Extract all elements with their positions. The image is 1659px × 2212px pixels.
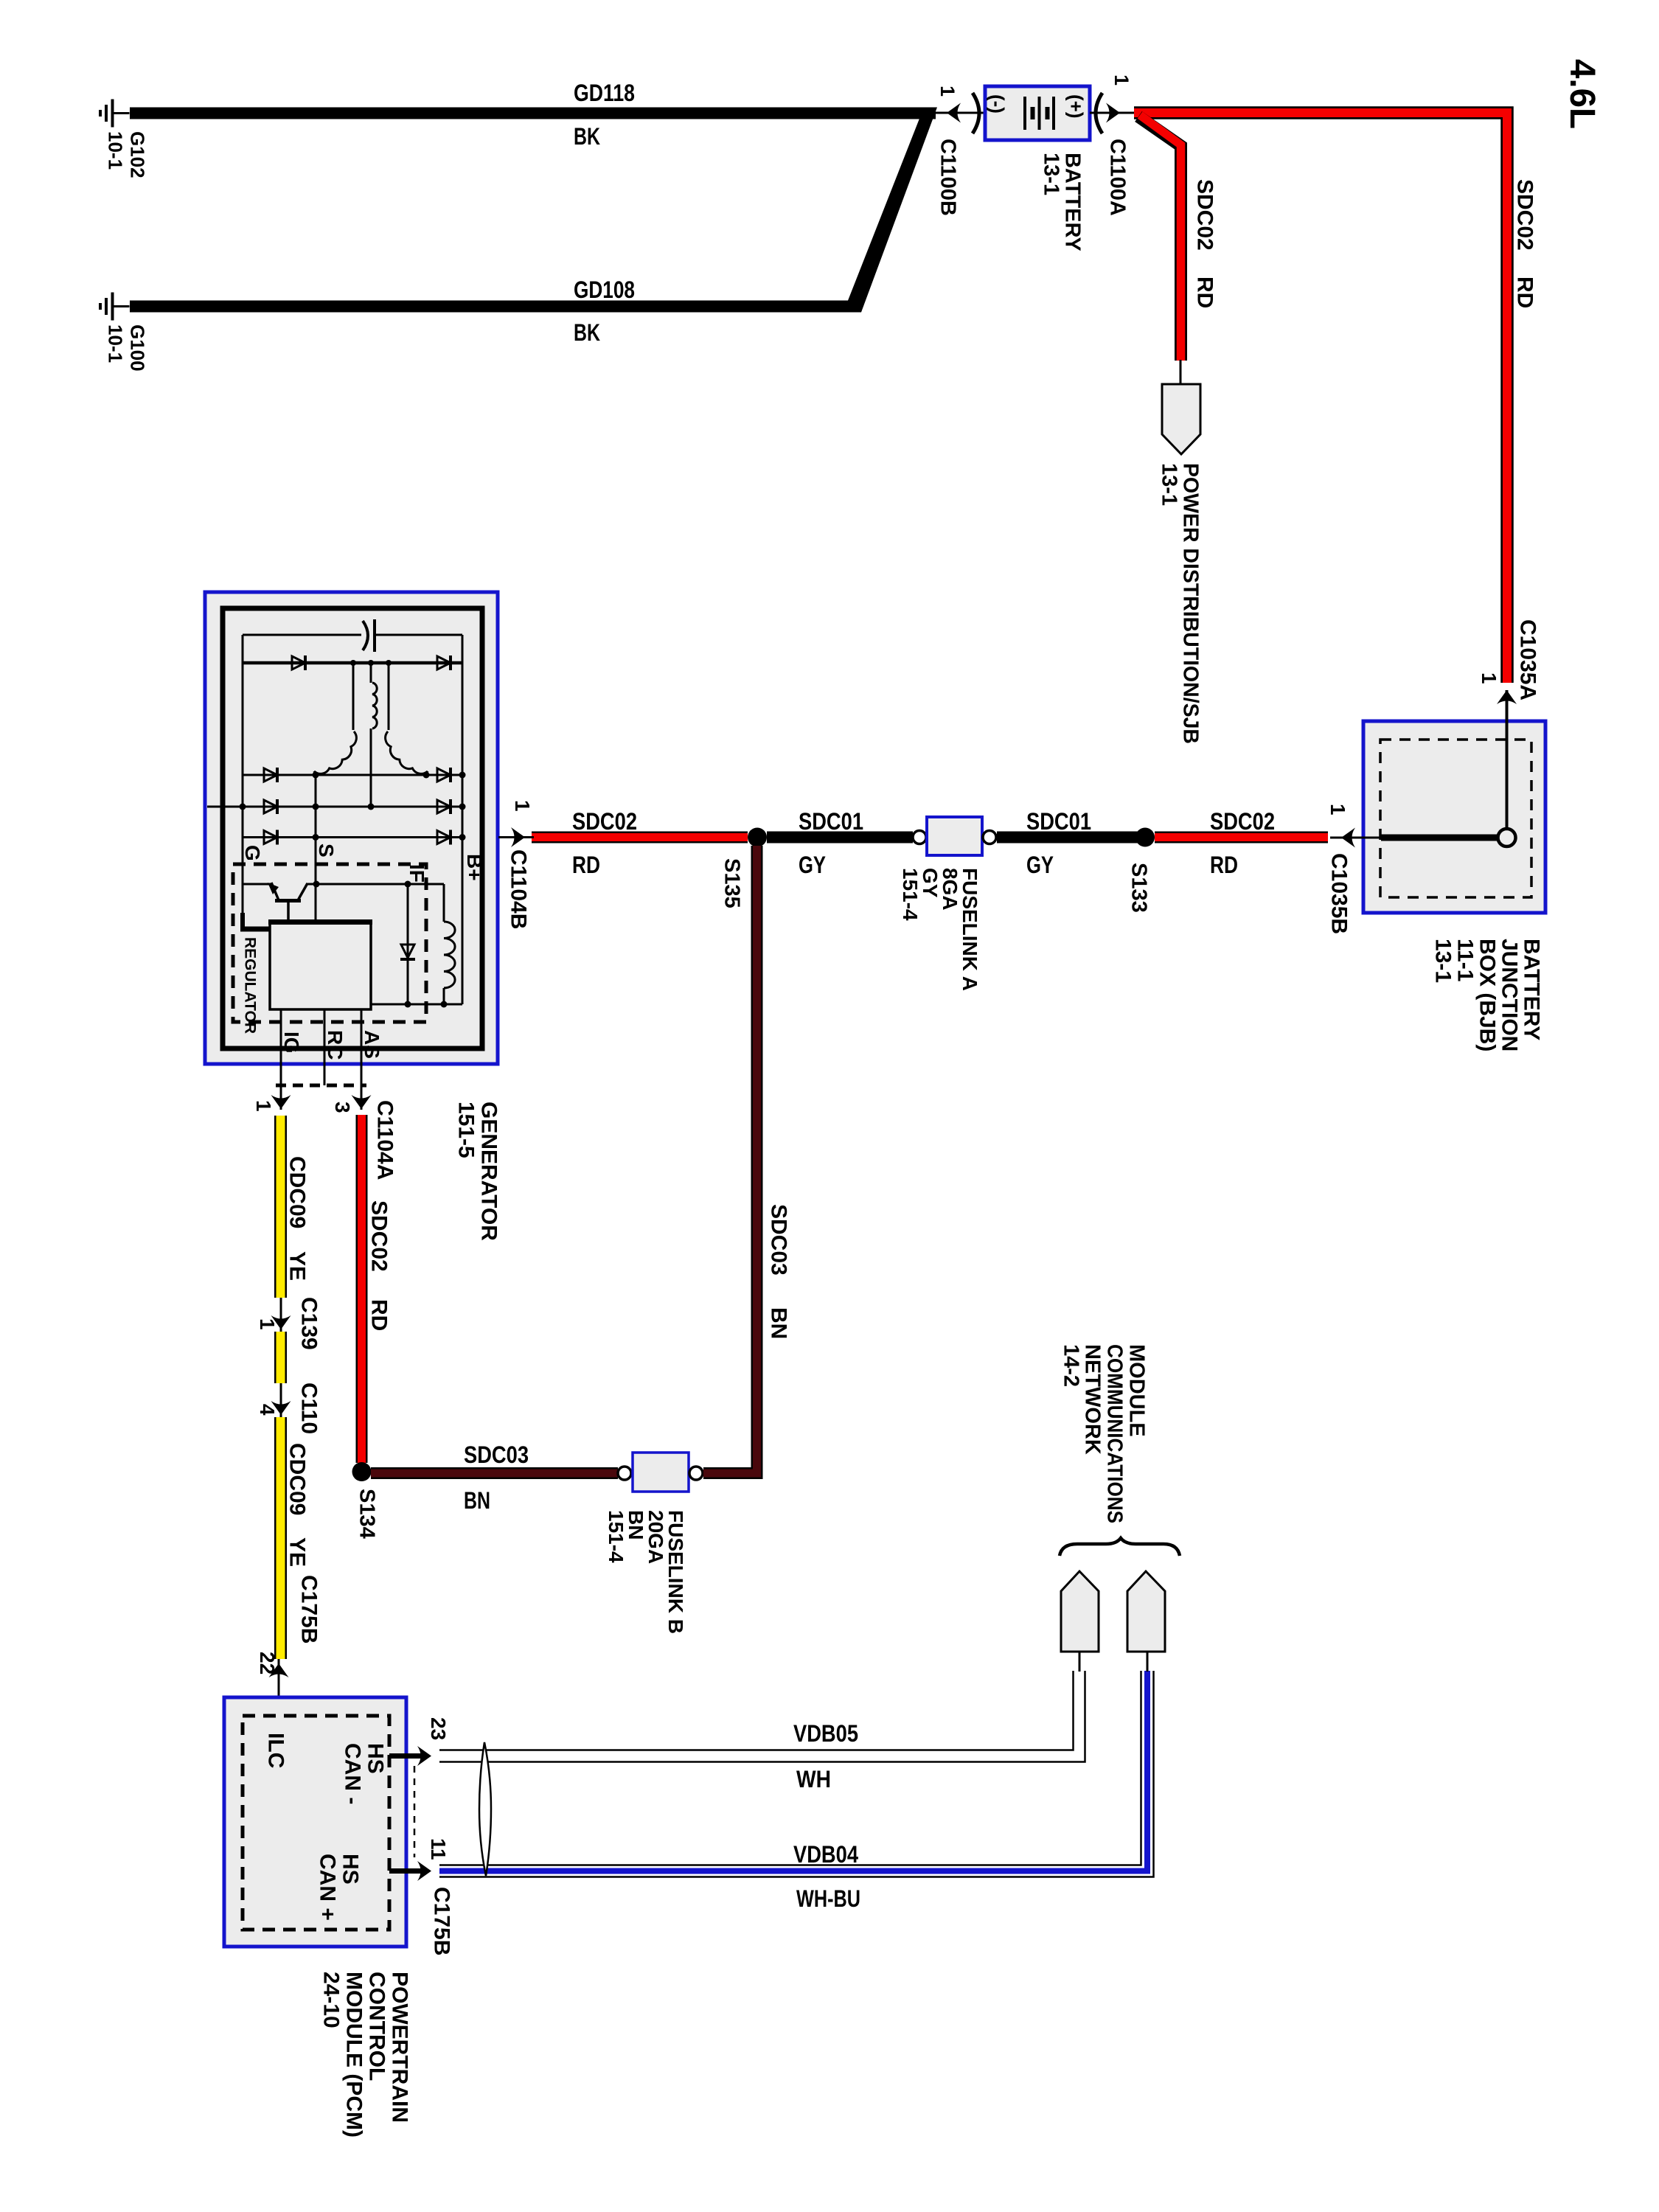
splice S134 (352, 1462, 372, 1481)
PCM pin 11 (389, 1868, 426, 1874)
wire CDC09 YE generator IG to C139 (274, 1116, 287, 1298)
svg-text:GENERATOR: GENERATOR (476, 1102, 501, 1241)
svg-text:1: 1 (936, 86, 959, 97)
svg-text:RD: RD (366, 1299, 391, 1331)
connector C175B dashed tie (414, 1766, 416, 1857)
svg-text:C110: C110 (296, 1382, 321, 1434)
svg-text:BATTERY: BATTERY (1061, 153, 1085, 251)
svg-text:C1035A: C1035A (1515, 619, 1540, 700)
svg-text:RD: RD (1192, 276, 1217, 308)
svg-text:GD118: GD118 (574, 80, 635, 106)
svg-text:(-): (-) (986, 94, 1008, 114)
svg-text:SDC03: SDC03 (464, 1441, 529, 1468)
svg-text:G102: G102 (126, 131, 148, 178)
field coil (443, 884, 445, 922)
svg-text:10-1: 10-1 (104, 131, 126, 170)
wire GD118 BK (130, 108, 936, 119)
svg-text:13-1: 13-1 (1430, 939, 1455, 983)
ground G100 (111, 293, 114, 321)
connector C1104A pin 1 (271, 1095, 291, 1109)
svg-text:GY: GY (1026, 852, 1054, 878)
wire SDC03 BN S134 to fuselink B (371, 1467, 618, 1479)
svg-text:BK: BK (574, 319, 600, 346)
svg-text:C139: C139 (296, 1297, 321, 1350)
svg-text:NETWORK: NETWORK (1081, 1344, 1105, 1455)
connector C139 (280, 1298, 282, 1332)
svg-text:SDC02: SDC02 (1192, 179, 1217, 251)
svg-text:23: 23 (427, 1717, 450, 1740)
svg-text:1: 1 (1478, 672, 1500, 684)
battery junction box (BJB) (1363, 721, 1545, 913)
svg-text:C175B: C175B (429, 1887, 453, 1955)
off-page connector VDB04 to network (1127, 1571, 1165, 1652)
svg-text:S135: S135 (720, 858, 744, 908)
svg-text:YE: YE (285, 1251, 309, 1281)
connector C110 (280, 1383, 282, 1417)
wire SDC02 RD S133 to C1035B (1155, 832, 1328, 844)
connector C175B pin 22 (278, 1659, 280, 1716)
left bus (242, 635, 244, 914)
svg-text:GY: GY (799, 852, 826, 878)
wire CDC09 YE C139 to C110 (274, 1332, 287, 1383)
fuselink A (913, 831, 926, 844)
svg-text:B+: B+ (463, 854, 486, 881)
battery B1 (985, 86, 1090, 140)
svg-text:RD: RD (1210, 852, 1238, 878)
wire to power distribution symbol (1180, 360, 1182, 385)
svg-text:3: 3 (331, 1102, 354, 1113)
svg-text:151-5: 151-5 (453, 1102, 478, 1158)
powertrain control module (PCM) (224, 1697, 406, 1947)
svg-text:C1100B: C1100B (936, 139, 960, 216)
svg-text:151-4: 151-4 (899, 868, 922, 921)
field line to IF (306, 883, 444, 886)
splice S133 (1135, 828, 1155, 847)
svg-text:SDC01: SDC01 (1026, 808, 1091, 835)
svg-text:CAN -: CAN - (340, 1743, 364, 1804)
off-page connector VDB05 to network (1061, 1571, 1099, 1652)
svg-text:S: S (315, 844, 338, 858)
capacitor C-gen (363, 621, 368, 650)
svg-text:WH-BU: WH-BU (796, 1885, 860, 1912)
svg-text:MODULE: MODULE (1125, 1344, 1149, 1437)
stator winding center coil (372, 683, 377, 728)
diode row 2 (243, 774, 462, 776)
svg-text:CAN +: CAN + (315, 1854, 339, 1921)
connector C1104A dashed tie (276, 1084, 366, 1088)
pin IG (280, 1009, 282, 1110)
svg-text:151-4: 151-4 (605, 1510, 627, 1563)
svg-text:POWERTRAIN: POWERTRAIN (387, 1972, 411, 2123)
svg-text:BATTERY: BATTERY (1519, 939, 1543, 1040)
svg-text:RD: RD (1512, 276, 1537, 308)
svg-text:VDB04: VDB04 (793, 1841, 858, 1868)
svg-text:S134: S134 (355, 1489, 379, 1539)
svg-text:C1100A: C1100A (1106, 139, 1130, 216)
svg-text:SDC01: SDC01 (799, 808, 863, 835)
fuselink B (618, 1467, 631, 1480)
brace (1060, 1538, 1180, 1556)
svg-text:REGULATOR: REGULATOR (242, 937, 259, 1034)
svg-text:4: 4 (256, 1404, 279, 1416)
stator winding left coil (314, 731, 356, 773)
wire VDB05 WH (439, 1671, 1074, 1750)
svg-text:YE: YE (285, 1537, 309, 1567)
svg-text:MODULE (PCM): MODULE (PCM) (341, 1972, 366, 2138)
stator winding drops (352, 663, 355, 730)
stator winding right coil (386, 731, 428, 773)
connector C1104A pin 3 (352, 1095, 372, 1109)
svg-text:HS: HS (338, 1854, 362, 1885)
svg-text:S133: S133 (1127, 863, 1151, 913)
svg-text:HS: HS (363, 1743, 387, 1774)
svg-text:4.6L: 4.6L (1562, 59, 1601, 129)
diode row 1 (top) (243, 661, 462, 665)
svg-text:SDC03: SDC03 (766, 1204, 790, 1276)
wire VDB04 WH-BU (439, 1671, 1154, 1877)
svg-text:13-1: 13-1 (1158, 463, 1181, 506)
off-page symbol POWER DISTRIBUTION/SJB (1162, 384, 1200, 454)
svg-text:(+): (+) (1065, 94, 1087, 119)
BJB internal bus (1381, 835, 1498, 841)
svg-text:RC: RC (324, 1030, 347, 1060)
svg-text:G: G (241, 845, 264, 861)
svg-text:SDC02: SDC02 (366, 1200, 391, 1272)
wire cap row (243, 634, 361, 636)
connector C1100B (936, 112, 985, 114)
svg-text:COMMUNICATIONS: COMMUNICATIONS (1103, 1344, 1127, 1523)
diode field (407, 884, 409, 1004)
svg-text:IF: IF (406, 864, 428, 883)
svg-text:BOX (BJB): BOX (BJB) (1475, 939, 1499, 1051)
svg-text:ILC: ILC (263, 1733, 288, 1768)
svg-text:11-1: 11-1 (1453, 939, 1477, 981)
transistor Q1 (243, 883, 272, 886)
svg-text:SDC02: SDC02 (572, 808, 637, 835)
svg-text:BN: BN (464, 1487, 490, 1514)
connector C1100A (1096, 93, 1102, 133)
connector C1035A (1497, 690, 1517, 704)
svg-text:C175B: C175B (296, 1575, 321, 1644)
svg-text:CDC09: CDC09 (285, 1443, 309, 1515)
diode row 4 (B+) (243, 836, 462, 838)
wire CDC09 YE C110 to PCM C175B (274, 1417, 287, 1659)
wire SDC01 GY fuselink A to S133 (997, 832, 1140, 844)
svg-text:24-10: 24-10 (319, 1972, 343, 2028)
svg-text:1: 1 (256, 1318, 279, 1330)
svg-text:13-1: 13-1 (1040, 153, 1063, 195)
regulator box (270, 921, 371, 1009)
wire SDC02 RD battery to BJB via top-right corner (1134, 113, 1507, 683)
wire SDC02 RD generator AS to S134 (356, 1115, 368, 1463)
ground G102 (111, 100, 114, 128)
svg-text:SDC02: SDC02 (1210, 808, 1275, 835)
twisted pair symbol (479, 1742, 491, 1876)
right bus (462, 635, 464, 1004)
S column (315, 775, 317, 921)
PCM pin 23 (389, 1753, 426, 1759)
connector C1104B (498, 836, 534, 838)
svg-text:10-1: 10-1 (104, 324, 126, 363)
svg-text:C1104A: C1104A (372, 1100, 397, 1180)
splice S135 (748, 828, 767, 847)
svg-text:CDC09: CDC09 (285, 1156, 309, 1228)
svg-text:G100: G100 (126, 324, 148, 372)
svg-text:JUNCTION: JUNCTION (1497, 939, 1521, 1051)
svg-text:22: 22 (256, 1652, 279, 1674)
svg-text:11: 11 (427, 1838, 450, 1860)
svg-text:IG: IG (280, 1032, 303, 1054)
connector C1035B (1330, 837, 1381, 839)
pin RC (324, 1009, 326, 1085)
regulator bottom bus (371, 1004, 462, 1006)
generator box (205, 592, 498, 1064)
svg-text:BK: BK (574, 123, 600, 150)
svg-text:SDC02: SDC02 (1512, 179, 1537, 251)
svg-text:1: 1 (511, 800, 534, 812)
wire SDC02 RD generator to S135 (532, 832, 748, 844)
wire SDC01 GY S135 to fuselink A (767, 832, 913, 844)
BJB eyelet node (1498, 829, 1516, 846)
wire SDC03 BN fuselink B to corner and up to S135 (703, 846, 757, 1473)
svg-text:VDB05: VDB05 (793, 1720, 858, 1747)
wire GD108 BK (130, 301, 852, 313)
svg-text:1: 1 (1326, 804, 1349, 815)
wire SDC02 RD branch to SJB (1138, 116, 1181, 361)
svg-text:C1104B: C1104B (506, 849, 530, 929)
svg-text:14-2: 14-2 (1060, 1344, 1083, 1387)
svg-text:POWER DISTRIBUTION/SJB: POWER DISTRIBUTION/SJB (1179, 463, 1203, 744)
svg-text:AS: AS (361, 1030, 383, 1059)
regulator dashed box (233, 864, 426, 1022)
svg-text:BN: BN (766, 1307, 790, 1339)
svg-text:WH: WH (796, 1766, 831, 1792)
svg-text:C1035B: C1035B (1326, 853, 1351, 934)
svg-text:1: 1 (1110, 74, 1133, 86)
svg-text:1: 1 (252, 1100, 275, 1112)
svg-text:RD: RD (572, 852, 600, 878)
diode row 3 (207, 806, 462, 808)
svg-text:CONTROL: CONTROL (364, 1972, 389, 2081)
svg-text:GD108: GD108 (574, 276, 635, 303)
pin AS (361, 1009, 363, 1110)
